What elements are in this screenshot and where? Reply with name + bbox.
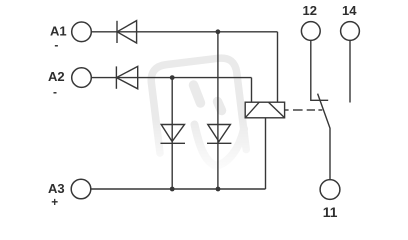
watermark cord curve xyxy=(195,125,245,167)
watermark fade overlay xyxy=(130,118,270,223)
junction dot A3 left xyxy=(170,187,175,192)
relay coil K1 xyxy=(245,102,284,118)
junction dot A1 branch xyxy=(216,29,221,34)
svg-text:-: - xyxy=(54,38,58,52)
terminal A2 xyxy=(72,68,92,88)
switch arm xyxy=(318,94,330,180)
svg-text:+: + xyxy=(51,195,58,209)
svg-text:A1: A1 xyxy=(50,23,67,38)
wire A1 vertical to coil xyxy=(277,32,279,102)
terminal A1 xyxy=(72,22,92,42)
wire A3 horizontal xyxy=(91,188,266,190)
junction dot A3 right xyxy=(216,187,221,192)
watermark frame xyxy=(149,56,246,160)
svg-text:12: 12 xyxy=(303,3,317,18)
svg-text:A2: A2 xyxy=(48,69,65,84)
wire A2 horizontal xyxy=(91,77,251,79)
wire contact 12 lead xyxy=(311,40,328,100)
wire A2 branch vertical xyxy=(171,78,173,189)
wire A1 branch vertical xyxy=(217,32,219,189)
terminal 14 xyxy=(341,22,360,41)
wire A2 vertical to coil xyxy=(251,78,253,103)
wire A1 horizontal xyxy=(91,31,277,33)
junction dot A2 branch xyxy=(170,75,175,80)
terminal 12 xyxy=(301,22,320,41)
diode D4 (freewheel, right) xyxy=(207,125,231,144)
svg-text:11: 11 xyxy=(323,205,338,220)
mechanical linkage dashed xyxy=(285,109,289,111)
svg-text:14: 14 xyxy=(342,3,357,18)
wire contact 14 lead xyxy=(349,40,351,102)
watermark eye 2 xyxy=(218,102,222,111)
diode D3 (freewheel, left) xyxy=(161,125,186,144)
svg-text:-: - xyxy=(53,85,57,99)
svg-text:A3: A3 xyxy=(48,181,65,196)
diode D1 (series, A1) xyxy=(117,21,137,43)
diode D2 (series, A2) xyxy=(116,66,137,88)
terminal A3 xyxy=(71,179,91,199)
wire coil bottom vertical xyxy=(265,118,267,189)
watermark eye 1 xyxy=(194,85,201,103)
terminal 11 xyxy=(320,180,340,200)
